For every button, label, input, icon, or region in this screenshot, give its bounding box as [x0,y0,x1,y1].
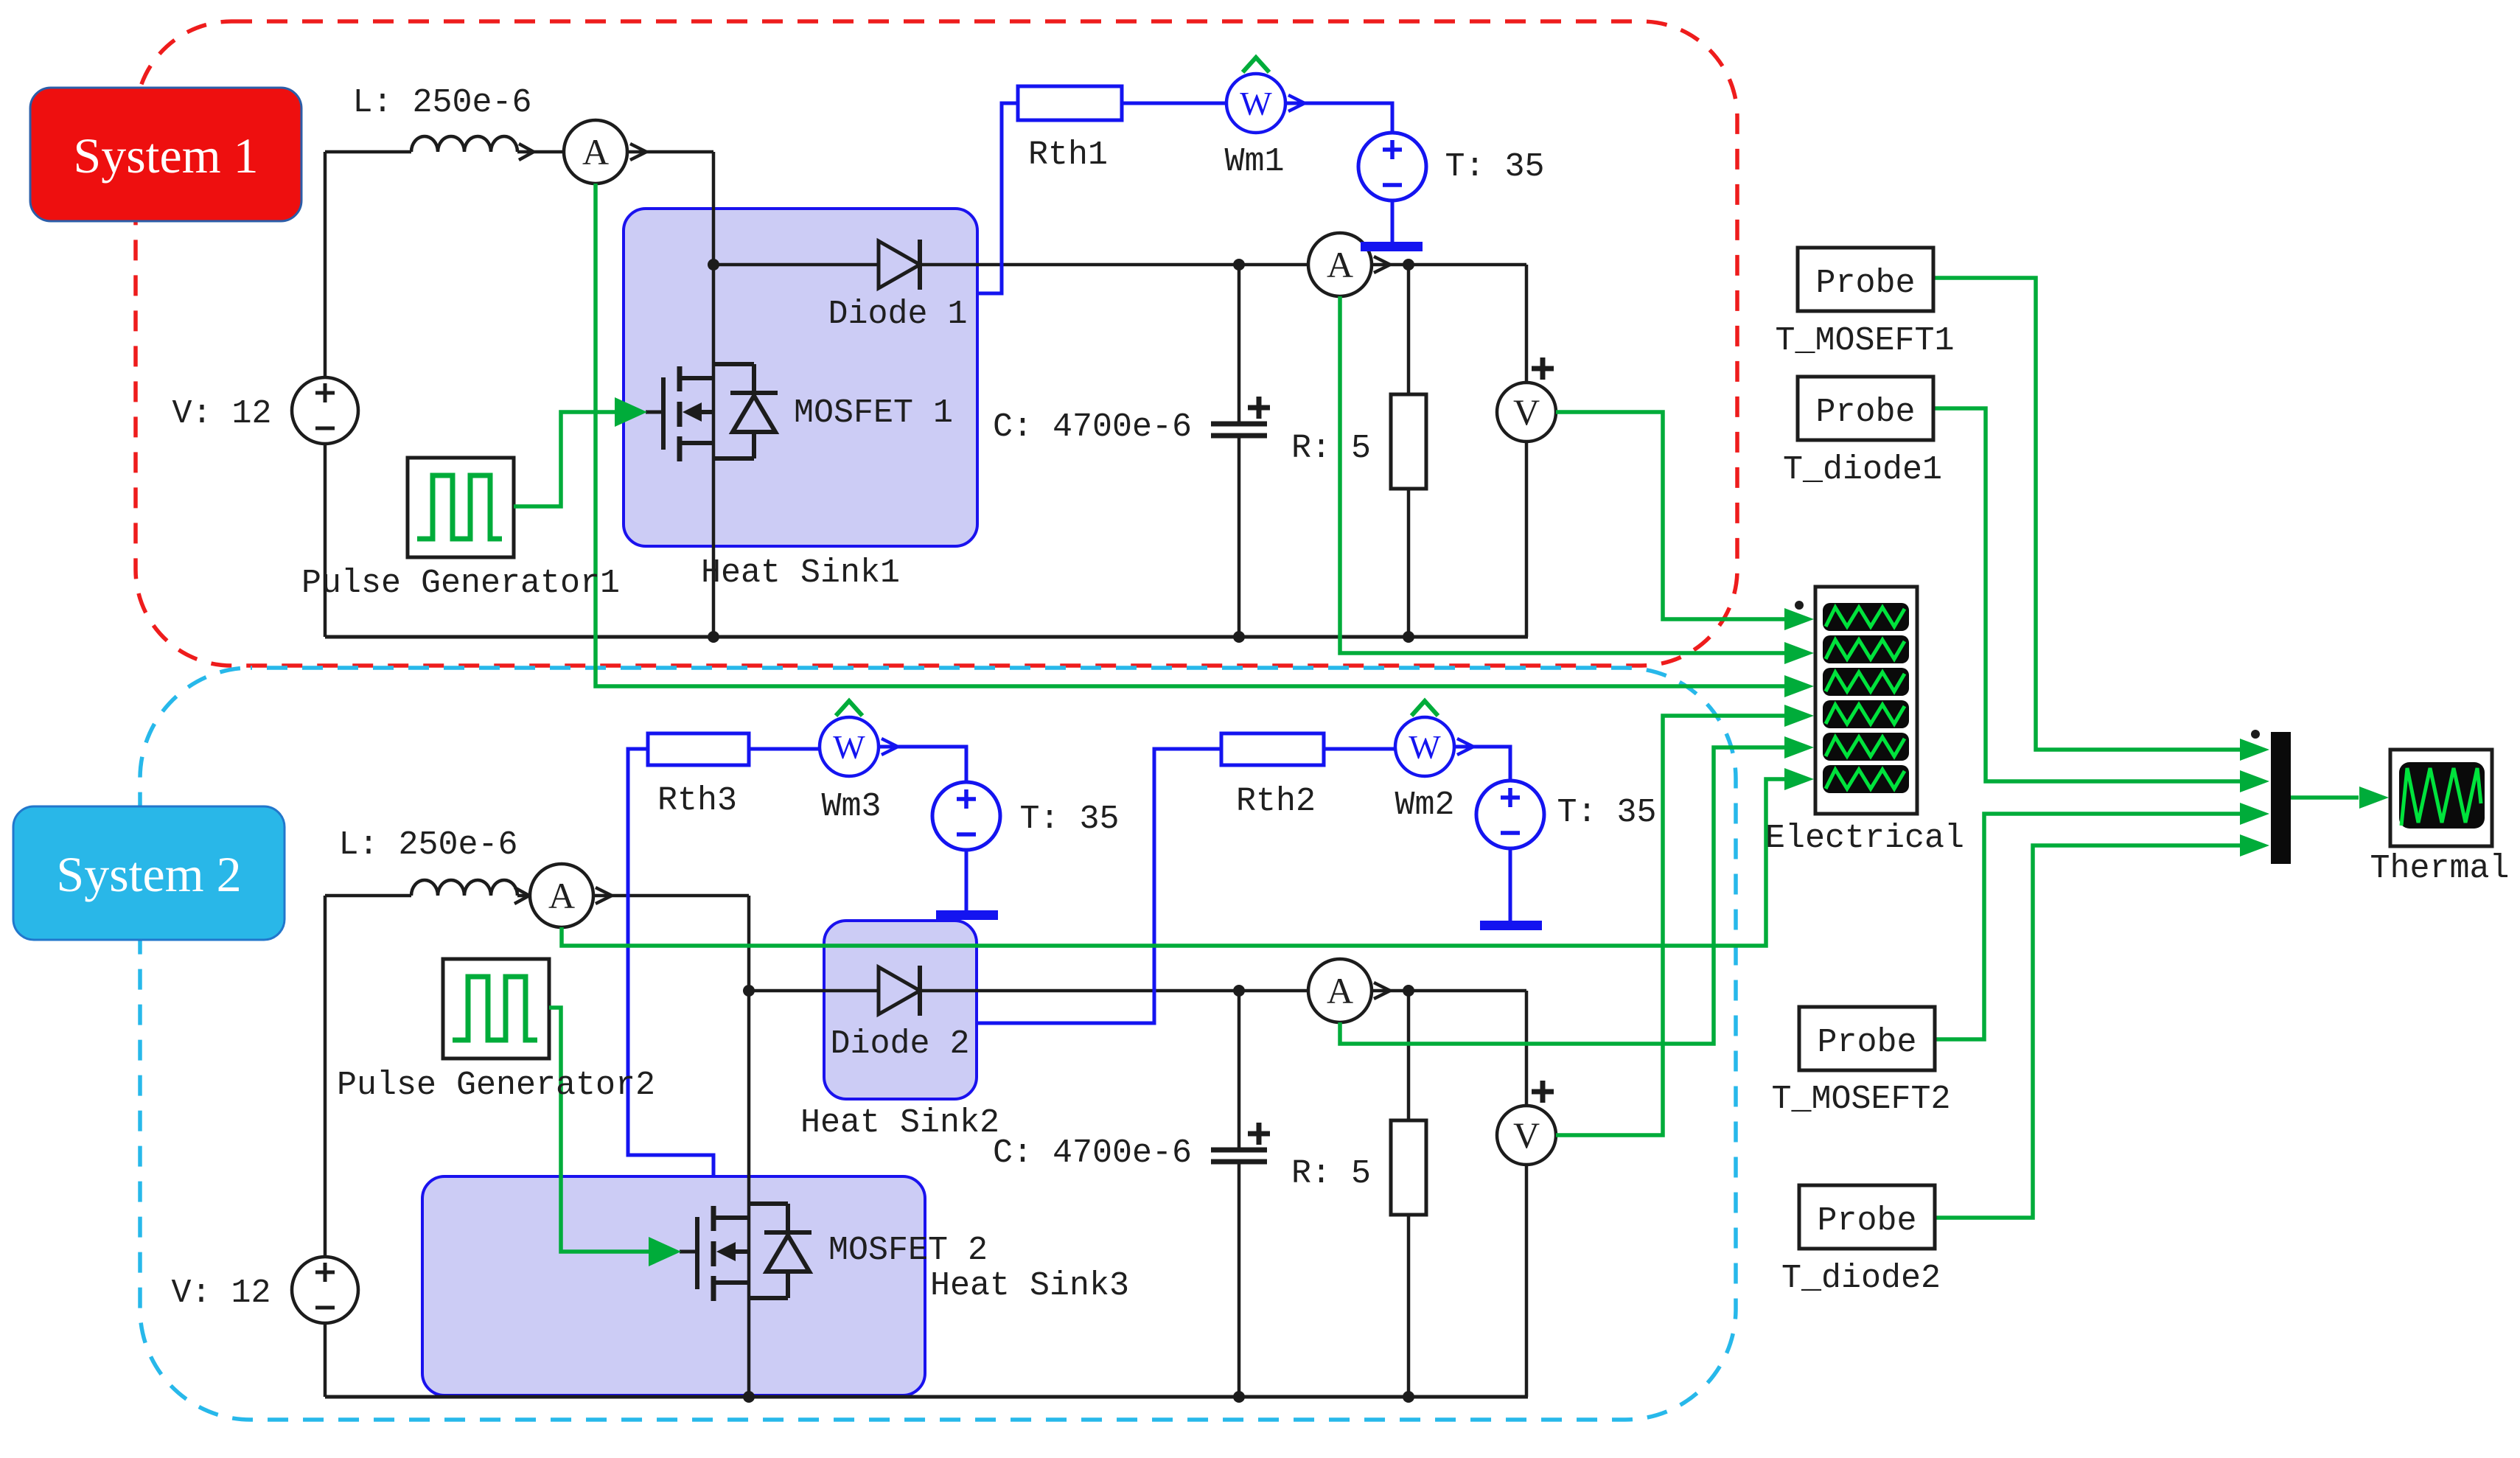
wire system1 top rail left [325,150,411,154]
node junction R2 bottom [1403,1391,1414,1403]
inductor L2 [411,880,517,896]
arrow scope input3 [1784,675,1814,697]
probe T_MOSEFT1 block [1798,248,1933,311]
wire Wm2 to T2 [1454,747,1510,781]
wire C1 branch [1238,265,1241,637]
arrow scope input6 [1784,768,1814,790]
svg-text:C: 4700e-6: C: 4700e-6 [993,408,1192,446]
arrow after A3 [596,887,612,904]
svg-text:Electrical: Electrical [1765,820,1964,857]
wire green A1 to scope input3 [596,184,1786,686]
resistor R2 [1391,1120,1426,1215]
arrow into Thermal scope [2359,786,2389,809]
wire Wm3 to T3 [879,747,966,782]
node junction diode2 row left [743,985,755,997]
svg-text:MOSFET 1: MOSFET 1 [794,394,953,432]
inductor L1 [411,136,517,152]
svg-text:V: 12: V: 12 [172,395,271,433]
voltage source V1 [292,377,358,444]
svg-text:Probe: Probe [1817,1202,1916,1240]
wire Rth1 left to Heat Sink1 [979,103,1018,293]
node junction R1 bottom [1403,631,1414,643]
svg-text:A: A [548,875,575,916]
svg-text:A: A [1327,244,1353,285]
node junction C1 bottom [1233,631,1245,643]
svg-text:Wm2: Wm2 [1395,786,1454,824]
wire Rth3 to Wm3 [749,747,820,751]
svg-text:V: 12: V: 12 [171,1274,271,1312]
wire green PG2 to MOSFET2 gate [549,1008,652,1252]
System 2 dashed boundary box [140,668,1736,1420]
svg-text:Heat Sink2: Heat Sink2 [800,1104,999,1142]
svg-text:Diode 2: Diode 2 [830,1025,969,1063]
wire Rth3 left to Heat Sink3 [628,749,713,1176]
arrow mux input4 [2240,834,2269,857]
wire green PG1 to MOSFET1 gate [514,412,618,506]
thermal resistor Rth3 [648,733,749,765]
heat sink Heat Sink2 [824,921,977,1099]
svg-text:L: 250e-6: L: 250e-6 [338,826,517,864]
ground bar T1 [1361,242,1423,251]
ammeter A2 [1308,233,1372,296]
svg-text:System 2: System 2 [56,846,241,902]
wire MOSFET2 drain-source vertical [747,896,751,1397]
wire after A1 [627,150,713,154]
svg-text:L: 250e-6: L: 250e-6 [352,84,531,122]
ammeter A3 [530,864,593,927]
wire V2 source drop [324,896,327,1257]
svg-text:T_MOSEFT1: T_MOSEFT1 [1775,322,1954,360]
arrow mux input3 [2240,803,2269,825]
wire V1 meter branch [1525,265,1529,637]
wire V2 meter branch [1525,991,1529,1397]
wire green probe T_MOSEFT1 to mux input1 [1933,278,2242,750]
transistor MOSFET1 [646,364,778,461]
voltmeter V2m [1497,1106,1556,1165]
arrow after L2 [514,887,529,904]
heat sink Heat Sink3 [422,1176,925,1395]
node dot above scope [1795,601,1804,610]
svg-text:V: V [1513,1115,1540,1156]
wire green probe T_MOSEFT2 to mux input3 [1935,814,2242,1039]
node junction MOSFET2 source bottom [743,1391,755,1403]
arrow gate MOSFET1 [615,397,647,427]
svg-text:Rth2: Rth2 [1236,783,1316,820]
wire T3 to ground [965,850,968,910]
caret above Wm1 [1243,57,1269,72]
wire system2 top rail left [325,894,411,898]
arrow scope input1 [1784,608,1814,630]
ammeter A4 [1308,959,1372,1022]
arrow after L1 [519,144,534,160]
wire after A4 [1372,989,1526,993]
scope Electrical [1815,587,1917,814]
thermal resistor Rth2 [1221,733,1324,765]
svg-text:Heat Sink1: Heat Sink1 [701,554,900,592]
wire V1 to bottom rail [324,444,327,637]
arrow mux input1 [2240,739,2269,761]
wire Rth2 left to Heat Sink2 [978,749,1221,1023]
node junction C1 top [1233,259,1245,271]
svg-text:Wm1: Wm1 [1224,143,1284,181]
power meter Wm2 [1395,717,1454,776]
svg-text:V: V [1513,391,1540,433]
wire T1 to ground [1391,200,1395,242]
wire R2 branch [1407,991,1411,1397]
svg-text:T_diode2: T_diode2 [1781,1260,1941,1297]
temperature source T1 [1358,133,1426,200]
thermal resistor Rth1 [1018,86,1122,120]
temperature source T2 [1476,781,1544,848]
wire V1 source drop [324,152,327,377]
svg-text:R: 5: R: 5 [1291,430,1371,467]
capacitor C1 [1211,424,1267,436]
power meter Wm3 [820,717,879,776]
arrow gate MOSFET2 [649,1237,681,1266]
transistor MOSFET2 [680,1204,812,1301]
wire R1 branch [1407,265,1411,637]
node junction R2 top [1403,985,1414,997]
System 1 title box [30,88,301,221]
wire green V1m to scope input1 [1556,412,1786,619]
wire T2 to ground [1509,848,1512,921]
node junction C2 bottom [1233,1391,1245,1403]
svg-text:Probe: Probe [1817,1024,1916,1061]
caret above Wm3 [836,701,862,716]
wire after L2 [517,894,530,898]
wire after A3 [593,894,749,898]
wire diode2 row [749,989,1308,993]
wire system2 bottom rail [325,1395,1528,1399]
diode D2 [879,967,920,1014]
caret above Wm2 [1411,701,1438,716]
wire green V2m to scope input4 [1556,716,1786,1135]
wire Rth1 to Wm1 [1122,102,1226,105]
wire green mux to Thermal scope [2291,795,2359,800]
voltage source V2 [292,1257,358,1323]
wire Rth2 to Wm2 [1324,747,1395,751]
power meter Wm1 [1226,74,1285,133]
node junction R1 top [1403,259,1414,271]
wire after L1 [517,150,564,154]
ground bar T3 [936,910,998,920]
svg-text:System 1: System 1 [73,128,258,184]
svg-text:W: W [1240,85,1272,122]
svg-text:Rth3: Rth3 [657,782,737,820]
node junction diode1 row left [708,259,719,271]
arrow scope input5 [1784,736,1814,758]
svg-text:Heat Sink3: Heat Sink3 [930,1267,1129,1305]
svg-text:R: 5: R: 5 [1291,1155,1371,1193]
pulse generator PulseGenerator2 [443,959,549,1058]
arrow after A1 [630,144,646,160]
svg-text:C: 4700e-6: C: 4700e-6 [993,1134,1192,1172]
probe T_diode1 block [1798,377,1933,440]
probe T_diode2 block [1799,1185,1935,1249]
ground bar T2 [1480,921,1542,930]
svg-text:Thermal: Thermal [2370,850,2509,887]
wire system1 bottom rail [325,635,1528,639]
svg-text:Diode 1: Diode 1 [828,296,967,333]
probe T_MOSEFT2 block [1799,1007,1935,1070]
svg-text:A: A [582,131,609,172]
System 2 title box [13,806,285,940]
svg-text:W: W [1409,728,1441,766]
capacitor C2 [1211,1150,1267,1162]
wire after A2 [1372,263,1526,267]
svg-text:T: 35: T: 35 [1445,148,1544,186]
arrow scope input2 [1784,642,1814,664]
wire green probe T_diode1 to mux input2 [1933,408,2242,781]
arrow after Wm2 [1457,739,1473,755]
temperature source T3 [932,782,1000,850]
svg-text:T: 35: T: 35 [1019,800,1119,838]
svg-text:W: W [833,728,865,766]
node junction C2 top [1233,985,1245,997]
svg-text:A: A [1327,970,1353,1011]
wire green A2 to scope input2 [1340,296,1786,653]
heat sink Heat Sink1 [624,209,977,546]
arrow after Wm1 [1288,95,1305,111]
arrow after A2 [1374,257,1390,273]
pulse generator PulseGenerator1 [408,458,514,557]
wire Wm1 to T1 [1285,103,1392,133]
voltmeter V1m [1497,383,1556,442]
arrow after A4 [1374,983,1390,999]
svg-text:T_MOSEFT2: T_MOSEFT2 [1771,1081,1950,1118]
svg-text:Wm3: Wm3 [821,788,881,826]
svg-text:T_diode1: T_diode1 [1783,451,1942,489]
resistor R1 [1391,394,1426,489]
svg-text:MOSFET 2: MOSFET 2 [828,1232,988,1269]
wire MOSFET1 drain-source vertical [712,152,716,637]
arrow after Wm3 [882,739,898,755]
wire green probe T_diode2 to mux input4 [1935,845,2242,1218]
wire green A3 to scope input6 [562,779,1786,946]
svg-text:T: 35: T: 35 [1557,794,1656,831]
mux block [2271,732,2291,864]
svg-text:Pulse Generator1: Pulse Generator1 [301,565,620,602]
svg-text:Rth1: Rth1 [1028,136,1108,174]
wire green A4 to scope input5 [1340,747,1786,1044]
scope Thermal [2390,750,2492,846]
ammeter A1 [564,120,627,184]
System 1 dashed boundary box [136,21,1737,666]
svg-text:Probe: Probe [1815,394,1915,431]
wire C2 branch [1238,991,1241,1397]
diode D1 [879,241,920,288]
svg-text:Pulse Generator2: Pulse Generator2 [337,1067,655,1104]
svg-text:Probe: Probe [1815,265,1915,302]
node dot above mux [2251,730,2260,739]
wire diode1 row [713,263,1308,267]
arrow scope input4 [1784,705,1814,727]
wire V2 to bottom rail [324,1323,327,1397]
arrow mux input2 [2240,770,2269,792]
node junction MOSFET1 source bottom [708,631,719,643]
